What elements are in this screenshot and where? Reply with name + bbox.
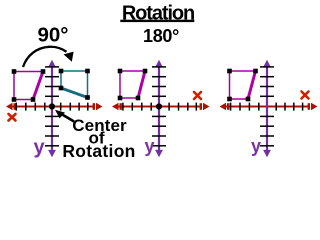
- svg-text:y: y: [251, 136, 261, 156]
- svg-text:y: y: [144, 136, 154, 156]
- svg-text:y: y: [33, 137, 45, 159]
- svg-text:180°: 180°: [143, 26, 179, 46]
- svg-text:Rotation: Rotation: [62, 141, 135, 161]
- svg-text:90°: 90°: [37, 24, 68, 47]
